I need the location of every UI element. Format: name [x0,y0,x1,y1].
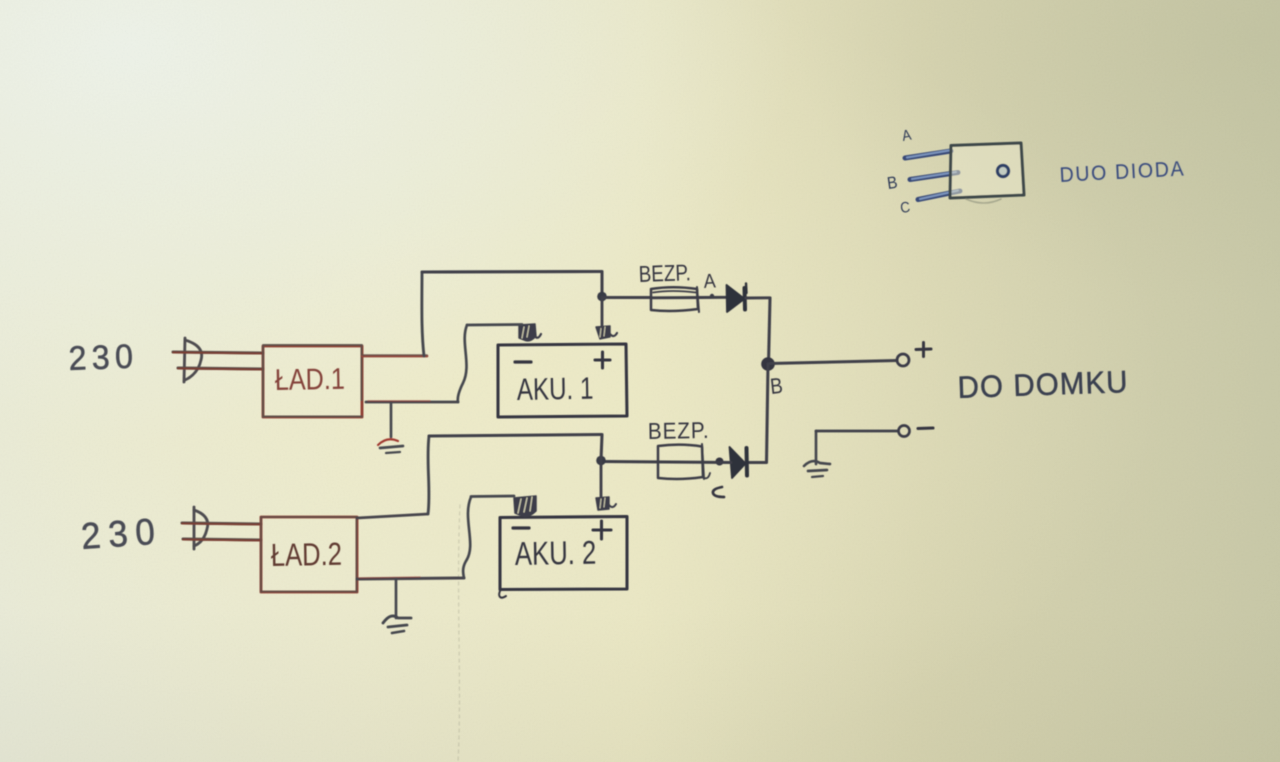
svg-text:B: B [769,374,784,399]
faint paper crease [458,505,460,762]
terminal minus circle [899,426,910,437]
svg-text:230: 230 [80,510,164,558]
wire node1 to fuse F1 [602,296,651,299]
minus sign (output) [918,426,933,430]
fuse F2 [602,444,731,479]
wire diode C bar to corner [749,461,766,464]
wire node2 down to AKU.2 plus [600,461,603,498]
junction node 1 [597,292,607,302]
pre-diode dot C [716,458,724,466]
wire riser to top bus 1 [422,272,424,356]
wire node B to plus terminal [770,361,897,364]
battery AKU.1 minus terminal [519,324,541,341]
svg-text:A: A [703,271,716,294]
DUO DIODA body [950,143,1024,203]
wire LAD.2 minus output [357,577,464,579]
DUO DIODA mounting hole [997,165,1008,176]
charger LAD.1 box [263,345,362,417]
svg-text:ŁAD.2: ŁAD.2 [271,537,343,574]
wire top bus 2 [429,435,602,437]
battery AKU.2 minus terminal [514,496,536,516]
DUO DIODA leg A [905,151,951,159]
svg-text:AKU. 1: AKU. 1 [517,371,594,407]
pre-diode dot A [710,294,714,298]
battery AKU.1 plus terminal [596,326,617,339]
wire minus output [816,430,898,433]
wire input pair 2 [182,523,261,541]
wire AKU.1 minus to LAD.1 [458,325,522,403]
wire node B down to diode C [767,364,769,463]
terminal plus circle [897,354,909,366]
label C (diode C) [713,487,724,497]
plug P1 [184,338,202,382]
wire bus corner down to node 1 [600,272,603,296]
svg-text:DO DOMKU: DO DOMKU [957,365,1129,405]
wire LAD.1 minus output [366,401,458,402]
wire bus2 corner down to node 2 [601,435,602,460]
wire LAD.1 plus output [362,355,427,356]
battery AKU.2 plus terminal [596,497,616,510]
junction node 2 [596,456,606,466]
wire riser to top bus 2 [428,436,429,514]
wire top bus 1 [422,270,602,274]
svg-text:BEZP.: BEZP. [638,261,691,288]
ground G2 (LAD.2) [383,579,411,633]
fuse F1 [651,287,727,312]
charger LAD.2 box [261,517,357,592]
svg-text:BEZP.: BEZP. [648,417,710,444]
plug P2 [194,507,208,549]
plus sign (output) [916,343,931,357]
ground G3 (output minus) [804,431,830,477]
battery AKU.1 box [498,344,627,417]
wire AKU.2 minus to LAD.2 [463,496,514,578]
diode D_C [730,447,748,478]
svg-text:AKU. 2: AKU. 2 [514,535,596,573]
DUO DIODA leg B [910,172,958,180]
wire corner down to node B [769,298,771,364]
wire diode A to corner [746,296,770,299]
wire input pair 1 [173,352,263,370]
battery AKU.2 box [499,517,627,598]
svg-text:ŁAD.1: ŁAD.1 [275,362,346,397]
svg-text:230: 230 [68,338,139,378]
DUO DIODA leg C [918,191,960,200]
wire AKU.1 plus to node 1 [601,297,604,327]
ground G1 (LAD.1) [378,403,403,453]
diode D_A [727,284,747,313]
wire LAD.2 plus output [357,514,428,518]
node B [761,357,775,371]
